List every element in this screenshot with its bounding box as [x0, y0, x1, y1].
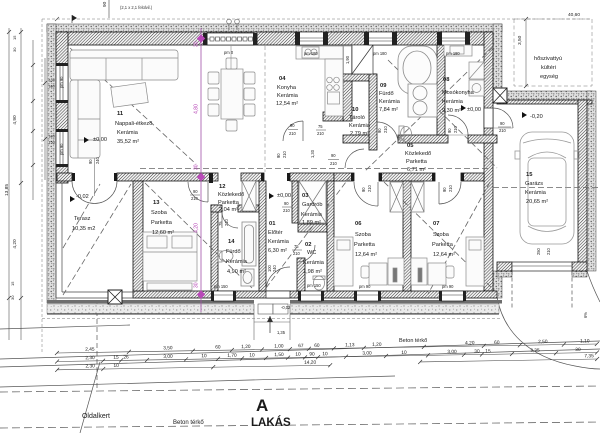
- footpath upper edge: [0, 376, 395, 387]
- svg-text:Gardrób: Gardrób: [302, 202, 323, 208]
- wc door: [298, 245, 315, 262]
- svg-text:3,50: 3,50: [517, 35, 523, 45]
- svg-text:210: 210: [317, 131, 325, 136]
- svg-text:6%: 6%: [583, 312, 588, 318]
- pavement strip along bottom: [47, 304, 499, 314]
- eaves top: [42, 18, 592, 20]
- svg-text:90: 90: [442, 187, 447, 192]
- svg-text:Terasz: Terasz: [74, 216, 91, 222]
- svg-text:Kerámia: Kerámia: [226, 259, 248, 265]
- wall over gardrob: [290, 173, 334, 181]
- ridge line: [140, 168, 493, 170]
- svg-text:Parketta: Parketta: [151, 220, 173, 226]
- coffee table: [111, 83, 148, 108]
- road kerb line S2: [0, 349, 600, 367]
- svg-text:90: 90: [290, 123, 295, 128]
- svg-text:Kerámia: Kerámia: [303, 260, 325, 266]
- kitchen top window with squares: [207, 33, 254, 45]
- svg-text:210: 210: [546, 247, 551, 255]
- window end caps: [56, 32, 470, 301]
- svg-text:12,54 m²: 12,54 m²: [276, 101, 298, 107]
- svg-text:60: 60: [494, 340, 500, 346]
- gardrob/wc left wall pieces: [292, 181, 298, 223]
- svg-text:Parketta: Parketta: [432, 242, 454, 248]
- bottom dims: [55, 338, 599, 372]
- mosokonyha appliances: [469, 62, 484, 79]
- svg-text:WC: WC: [307, 250, 316, 256]
- svg-text:210: 210: [283, 208, 291, 213]
- svg-text:100: 100: [49, 79, 55, 83]
- svg-text:pm 150: pm 150: [214, 284, 228, 289]
- svg-text:240: 240: [95, 156, 100, 164]
- wardrobe X boxes: [242, 181, 424, 223]
- road kerb line S1: [0, 341, 600, 359]
- svg-text:Beton térkő: Beton térkő: [399, 338, 427, 344]
- svg-text:90: 90: [193, 189, 198, 194]
- svg-text:7,35: 7,35: [584, 353, 594, 359]
- terrace diagonal 2: [63, 184, 100, 248]
- svg-text:40,60: 40,60: [568, 12, 580, 18]
- svg-text:210: 210: [499, 128, 507, 133]
- room06 door: [354, 182, 378, 206]
- level flags: [70, 105, 527, 202]
- svg-text:Konyha: Konyha: [277, 85, 297, 91]
- dining chairs left: [208, 72, 219, 84]
- room13 right wall: [211, 205, 218, 291]
- svg-text:100: 100: [49, 135, 55, 139]
- svg-text:Kerámia: Kerámia: [117, 130, 139, 136]
- svg-text:210: 210: [367, 184, 372, 192]
- door jamb caps: [72, 173, 464, 183]
- window top 3: [441, 32, 466, 45]
- door room12 to furdo14: [222, 212, 238, 228]
- svg-text:4,90: 4,90: [12, 115, 18, 125]
- kitchen-hall diagonal: [388, 60, 497, 168]
- svg-text:4,20: 4,20: [194, 223, 200, 233]
- svg-text:pm 90: pm 90: [442, 284, 454, 289]
- svg-text:90: 90: [88, 159, 93, 164]
- svg-text:-0,02: -0,02: [76, 194, 89, 200]
- bottom window wc: [300, 291, 322, 301]
- svg-text:90: 90: [276, 153, 281, 158]
- svg-text:Közlekedő: Közlekedő: [218, 192, 244, 198]
- svg-text:kültéri: kültéri: [541, 65, 556, 71]
- tarolo niche bottom: [343, 74, 376, 81]
- svg-text:1,13: 1,13: [345, 342, 355, 348]
- left dim column: [9, 28, 45, 340]
- svg-text:4,80: 4,80: [194, 104, 200, 114]
- svg-text:Fürdő: Fürdő: [226, 249, 241, 255]
- entrance axis mark: [269, 316, 271, 333]
- dining chair top/bottom: [226, 58, 237, 69]
- svg-text:15: 15: [113, 355, 119, 361]
- garage bottom wall pieces: [497, 262, 512, 271]
- eloter left wall: [259, 181, 266, 291]
- svg-text:2,04 m²: 2,04 m²: [219, 207, 238, 213]
- svg-text:60: 60: [215, 344, 221, 350]
- top wall: [56, 32, 493, 45]
- svg-text:210: 210: [383, 125, 388, 133]
- entrance steps: [258, 304, 288, 314]
- door to room13: [188, 182, 208, 202]
- svg-text:A: A: [256, 396, 268, 415]
- svg-text:210: 210: [448, 184, 453, 192]
- svg-text:30: 30: [10, 295, 15, 300]
- svg-text:06: 06: [355, 221, 362, 227]
- svg-text:03: 03: [302, 193, 309, 199]
- svg-text:90: 90: [102, 1, 108, 7]
- svg-text:210: 210: [330, 161, 338, 166]
- furdo14 tub: [242, 222, 256, 266]
- svg-text:30: 30: [12, 47, 17, 52]
- stipple left: [47, 24, 56, 303]
- left wall window 2: [56, 131, 68, 165]
- eaves dashed bottom: [42, 318, 500, 320]
- svg-text:1,30: 1,30: [310, 149, 315, 158]
- svg-text:20,65 m²: 20,65 m²: [526, 199, 548, 205]
- entrance walkway: [254, 300, 290, 341]
- svg-text:4,90 m²: 4,90 m²: [227, 269, 246, 275]
- bottom window room06: [356, 291, 379, 301]
- short kerb line left: [0, 325, 130, 329]
- corridor wall with door: [323, 112, 343, 121]
- driveway arc big: [497, 297, 600, 369]
- room07 door: [439, 182, 461, 204]
- svg-text:Beton térkő: Beton térkő: [173, 420, 204, 426]
- mosokonyha door: [448, 115, 468, 135]
- svg-text:pm 90: pm 90: [59, 143, 64, 155]
- garage corner column: [493, 88, 507, 103]
- svg-text:13: 13: [153, 200, 160, 206]
- bottom wall: [133, 291, 497, 298]
- terrace slab edge: [56, 183, 133, 298]
- svg-text:10: 10: [352, 107, 358, 113]
- svg-text:1,35: 1,35: [277, 330, 286, 335]
- svg-text:2,79 m²: 2,79 m²: [350, 131, 369, 137]
- bed room13: [143, 232, 197, 281]
- garage access door opening: [484, 108, 493, 128]
- svg-text:2,45: 2,45: [85, 347, 95, 353]
- svg-text:30: 30: [575, 347, 581, 353]
- svg-text:egység: egység: [540, 74, 558, 80]
- svg-text:90: 90: [284, 201, 289, 206]
- svg-text:hőszivattyú: hőszivattyú: [534, 56, 562, 62]
- svg-text:1,00: 1,00: [274, 343, 284, 349]
- desk room06: [369, 263, 387, 285]
- dining chairs right: [244, 72, 255, 84]
- svg-text:90: 90: [331, 153, 336, 158]
- svg-text:±0,00: ±0,00: [277, 193, 291, 199]
- svg-text:210: 210: [453, 125, 458, 133]
- eloter diagonal: [266, 174, 352, 288]
- stipple garage top: [502, 91, 592, 100]
- svg-text:Kerámia: Kerámia: [379, 99, 401, 105]
- svg-text:90: 90: [309, 351, 315, 357]
- stipple garage right: [587, 91, 596, 271]
- svg-text:Szoba: Szoba: [433, 232, 450, 238]
- svg-text:30: 30: [474, 349, 480, 355]
- svg-text:3,00: 3,00: [447, 349, 457, 355]
- bottom window furdo14: [213, 291, 234, 301]
- eaves left: [41, 19, 43, 352]
- tarolo bottom wall: [343, 135, 369, 143]
- svg-text:pm 150: pm 150: [307, 283, 321, 288]
- kitchen stove burners: [305, 49, 481, 93]
- svg-text:Közlekedő: Közlekedő: [405, 151, 431, 157]
- svg-text:12,60 m²: 12,60 m²: [152, 230, 174, 236]
- gardrob door: [298, 186, 315, 203]
- living diagonal: [70, 48, 196, 164]
- rooms06/07 divider: [403, 181, 411, 291]
- svg-text:30: 30: [194, 164, 200, 170]
- svg-text:1,20: 1,20: [372, 342, 382, 348]
- garage door opening: [512, 262, 572, 271]
- dining table: [221, 69, 243, 119]
- svg-text:Kerámia: Kerámia: [525, 190, 547, 196]
- left wall: [56, 32, 68, 183]
- svg-text:Kerámia: Kerámia: [442, 99, 464, 105]
- property dashed vertical: [96, 303, 98, 390]
- driveway dashed edges: [511, 271, 513, 308]
- svg-text:15: 15: [526, 172, 533, 178]
- mosokonyha diagonal: [364, 47, 493, 172]
- svg-text:14,20: 14,20: [304, 360, 316, 366]
- svg-text:Kerámia: Kerámia: [301, 212, 323, 218]
- rooms06/07 top wall pieces: [334, 173, 354, 181]
- window top 2: [368, 32, 393, 45]
- svg-text:Fürdő: Fürdő: [379, 91, 394, 97]
- svg-text:Garázs: Garázs: [525, 181, 543, 187]
- stipple garage bottom pieces: [497, 271, 512, 277]
- svg-text:6,30 m²: 6,30 m²: [268, 248, 287, 254]
- stipple right upper: [493, 24, 502, 91]
- furdo14 wc: [219, 251, 233, 262]
- terrace corner column: [108, 290, 122, 304]
- tall cabinet beside niche: [344, 46, 352, 74]
- desk room07: [428, 263, 446, 285]
- svg-text:250: 250: [536, 247, 541, 255]
- svg-text:30: 30: [194, 41, 200, 47]
- svg-text:10: 10: [295, 352, 301, 358]
- svg-text:pm 0: pm 0: [224, 50, 234, 55]
- entrance door arc: [266, 267, 290, 291]
- svg-text:Mosókonyha: Mosókonyha: [442, 90, 475, 96]
- svg-text:Parketta: Parketta: [354, 242, 376, 248]
- svg-text:1,90: 1,90: [345, 55, 350, 64]
- room13 left wall: [133, 181, 143, 291]
- svg-text:4,20: 4,20: [12, 239, 18, 249]
- svg-text:09: 09: [380, 83, 387, 89]
- svg-text:12: 12: [219, 184, 225, 190]
- svg-text:Kerámia: Kerámia: [268, 239, 290, 245]
- furdo09 door: [377, 122, 398, 143]
- kitchen/tarolo wall: [343, 74, 352, 121]
- svg-text:30: 30: [194, 282, 200, 288]
- svg-text:10: 10: [201, 353, 207, 359]
- tarolo right wall: [369, 74, 377, 150]
- svg-text:pm 180: pm 180: [446, 51, 460, 56]
- svg-text:90: 90: [500, 121, 505, 126]
- svg-text:150: 150: [49, 141, 55, 145]
- svg-text:11: 11: [117, 111, 124, 117]
- svg-text:2,30: 2,30: [85, 363, 95, 369]
- svg-text:14: 14: [228, 239, 235, 245]
- svg-text:10: 10: [401, 350, 407, 356]
- svg-text:Nappali-étkező: Nappali-étkező: [115, 121, 152, 127]
- sofa L top: [70, 50, 178, 80]
- svg-text:90: 90: [361, 187, 366, 192]
- terrace diagonal 1: [63, 184, 131, 295]
- kitchen floor boundary dashed: [264, 46, 266, 172]
- svg-text:210: 210: [191, 196, 199, 201]
- svg-text:pm 90: pm 90: [359, 284, 371, 289]
- svg-text:10: 10: [249, 352, 255, 358]
- pm0 leader line: [230, 46, 232, 69]
- svg-text:LAKÁS: LAKÁS: [251, 416, 291, 429]
- bed room06: [334, 237, 353, 286]
- garage top wall: [497, 100, 592, 104]
- tarolo niche with diagonal: [352, 45, 373, 74]
- driveway arc small: [587, 271, 600, 302]
- svg-text:210: 210: [289, 131, 297, 136]
- furdo14 basin: [241, 269, 254, 286]
- svg-text:±0,00: ±0,00: [467, 107, 481, 113]
- svg-text:01: 01: [269, 221, 276, 227]
- svg-text:9,30 m²: 9,30 m²: [442, 108, 461, 114]
- kitchen right counter: [325, 59, 343, 116]
- svg-text:Kerámia: Kerámia: [349, 123, 371, 129]
- svg-text:1,89 m²: 1,89 m²: [302, 220, 321, 226]
- svg-text:Tároló: Tároló: [349, 115, 365, 121]
- garage ridge dashed: [493, 187, 600, 189]
- svg-text:pm 180: pm 180: [373, 51, 387, 56]
- svg-text:Oldalkert: Oldalkert: [82, 413, 110, 420]
- wall over gardrob passage: [241, 173, 264, 181]
- svg-text:2,30: 2,30: [85, 355, 95, 361]
- entrance door opening: [266, 291, 290, 298]
- stipple below garage (house right): [493, 271, 502, 298]
- bed room07: [466, 237, 484, 286]
- wc02 toilet: [314, 276, 325, 290]
- svg-text:210: 210: [282, 150, 287, 158]
- svg-text:3,50: 3,50: [163, 345, 173, 351]
- room07 diagonal A: [384, 182, 496, 292]
- furdo09 corner tub: [218, 46, 437, 290]
- svg-text:7,84 m²: 7,84 m²: [379, 107, 398, 113]
- window top 1: [299, 32, 324, 45]
- left wall window 1: [56, 65, 68, 101]
- stipple top: [47, 24, 502, 32]
- svg-text:-0,02: -0,02: [281, 305, 291, 310]
- window mid lines: [207, 38, 254, 40]
- svg-text:pm 180: pm 180: [304, 51, 318, 56]
- svg-text:15: 15: [485, 348, 491, 354]
- kitchen top counter + fridge: [296, 46, 343, 59]
- right wall (house+garage shared): [484, 32, 493, 291]
- svg-text:1,98 m²: 1,98 m²: [303, 269, 322, 275]
- svg-text:75: 75: [218, 221, 223, 226]
- svg-text:13,85: 13,85: [4, 184, 10, 196]
- garage right wall: [578, 100, 587, 271]
- svg-text:210: 210: [224, 218, 229, 226]
- svg-text:240: 240: [272, 264, 277, 272]
- plinth dark strip bottom: [47, 300, 502, 304]
- svg-text:10: 10: [113, 363, 119, 369]
- wall room12/furdo14 pieces: [211, 205, 222, 212]
- svg-text:Szoba: Szoba: [355, 232, 372, 238]
- footpath slant: [80, 362, 100, 433]
- svg-text:75: 75: [294, 244, 299, 249]
- svg-text:75: 75: [318, 124, 323, 129]
- svg-text:67: 67: [298, 343, 304, 349]
- svg-text:10,35 m2: 10,35 m2: [72, 226, 95, 232]
- svg-text:Parketta: Parketta: [406, 159, 428, 165]
- svg-text:90: 90: [377, 128, 382, 133]
- svg-text:3,35: 3,35: [530, 348, 540, 354]
- svg-text:3,00: 3,00: [163, 354, 173, 360]
- svg-text:07: 07: [433, 221, 439, 227]
- svg-text:90: 90: [447, 128, 452, 133]
- svg-text:05: 05: [407, 143, 414, 149]
- svg-text:35,52 m²: 35,52 m²: [117, 139, 139, 145]
- car in garage: [515, 132, 579, 244]
- svg-text:08: 08: [443, 77, 450, 83]
- furdo/mosokonyha divider: [437, 45, 445, 135]
- svg-text:Szoba: Szoba: [151, 210, 168, 216]
- svg-text:150: 150: [49, 85, 55, 89]
- svg-text:Kerámia: Kerámia: [277, 93, 299, 99]
- road dashed line D2: [0, 422, 600, 428]
- sofa L left: [70, 80, 100, 158]
- hall west door arc: [345, 149, 364, 168]
- svg-text:04: 04: [279, 76, 286, 82]
- svg-text:12,64 m²: 12,64 m²: [355, 252, 377, 258]
- terrace sliding door: [72, 181, 117, 204]
- kitchen window mullion squares: [210, 37, 253, 41]
- svg-text:26: 26: [123, 355, 129, 361]
- svg-text:10: 10: [322, 351, 328, 357]
- svg-text:4,20: 4,20: [465, 340, 475, 346]
- corridor door to eloter: [283, 121, 303, 141]
- room13 diagonal: [145, 183, 252, 288]
- svg-text:2,50: 2,50: [538, 339, 548, 345]
- svg-text:210: 210: [293, 251, 301, 256]
- svg-text:1,10: 1,10: [580, 338, 590, 344]
- furdo09 wc: [401, 127, 412, 142]
- top dims: [55, 0, 109, 21]
- svg-text:1,20: 1,20: [241, 344, 251, 350]
- garage access door: [493, 108, 513, 128]
- road dashed centerline D1: [0, 386, 600, 392]
- svg-text:(2,1 x 2,1 felülvil.): (2,1 x 2,1 felülvil.): [120, 5, 153, 10]
- svg-text:±0,00: ±0,00: [93, 137, 107, 143]
- bottom window room07: [441, 291, 464, 301]
- gardrob/wc divider: [298, 224, 327, 232]
- room07 diagonal B: [428, 182, 490, 294]
- svg-text:-0,20: -0,20: [530, 114, 543, 120]
- furdo09 vanity basins: [408, 84, 437, 117]
- living bottom wall: [117, 173, 218, 181]
- svg-text:15: 15: [10, 281, 15, 286]
- gardrob/wc right wall: [327, 181, 334, 291]
- svg-text:12,64 m²: 12,64 m²: [433, 252, 455, 258]
- svg-text:Előtér: Előtér: [268, 230, 283, 236]
- svg-text:6,71 m²: 6,71 m²: [407, 167, 426, 173]
- svg-text:15: 15: [12, 35, 17, 40]
- svg-text:3,00: 3,00: [362, 350, 372, 356]
- furdo09 bottom wall: [398, 135, 448, 143]
- svg-text:02: 02: [305, 242, 311, 248]
